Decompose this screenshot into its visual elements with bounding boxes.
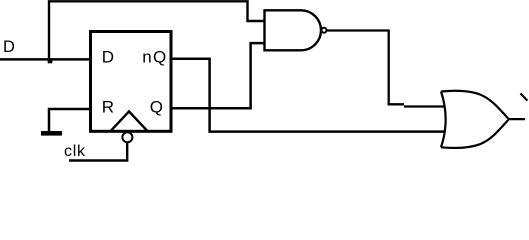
label Y (partial, clipped at edge) — [520, 93, 527, 100]
NAND output bubble — [322, 28, 327, 33]
wire clk to clock bubble — [69, 143, 127, 161]
wire Q output up to NAND input B — [172, 43, 264, 108]
clock bubble — [122, 132, 132, 142]
wire D input horizontal — [0, 58, 90, 61]
wire OR input A stub — [404, 105, 445, 107]
svg-text:D: D — [102, 47, 114, 66]
flip-flop U1 box — [91, 32, 172, 132]
svg-text:nQ: nQ — [142, 47, 167, 66]
node junction on D wire — [48, 59, 53, 64]
svg-text:D: D — [3, 38, 15, 56]
svg-text:Q: Q — [150, 97, 163, 116]
svg-text:R: R — [102, 97, 114, 116]
wire R input to ground — [49, 109, 90, 132]
NAND gate U2 — [265, 10, 322, 50]
wire OR output Y — [508, 118, 525, 120]
clock triangle — [111, 111, 147, 130]
wire feedback: up from D node, along top, down to NAND input A — [49, 1, 264, 59]
svg-text:clk: clk — [64, 143, 86, 160]
wire NAND output down to OR input A — [327, 31, 404, 105]
wire nQ output down and along bottom to OR input B — [172, 59, 445, 132]
ground — [41, 131, 62, 136]
OR gate U3 — [441, 92, 446, 148]
